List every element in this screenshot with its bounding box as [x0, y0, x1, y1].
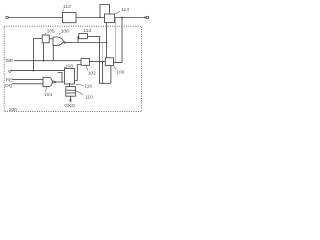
svg-text:116: 116: [84, 83, 92, 89]
wire vertical 114 to 106 left: [106, 23, 108, 58]
wire gate 106 output: [63, 42, 106, 44]
wire line2: [11, 70, 65, 72]
wire 110 to GND: [70, 96, 72, 100]
arrow GND: [69, 100, 72, 103]
wire L into gate output: [58, 73, 63, 83]
gate 104: [43, 77, 52, 86]
svg-text:DQ: DQ: [5, 83, 12, 89]
gate 106: [53, 37, 63, 45]
dashed enclosure 100: [4, 26, 141, 111]
svg-text:110: 110: [85, 94, 93, 100]
box 110: [66, 87, 76, 97]
wire 108 to 110: [69, 84, 71, 87]
svg-text:GND: GND: [64, 103, 75, 109]
svg-text:104: 104: [44, 92, 52, 98]
wire gate 106 bottom stub: [52, 45, 54, 61]
wire 102 bottom to 108: [75, 65, 82, 81]
svg-text:Φ: Φ: [8, 69, 12, 75]
box 105: [42, 35, 49, 43]
wire line1 WE: [14, 60, 81, 62]
arrow gate 106 output: [64, 41, 67, 44]
node junction at vertical: [106, 42, 108, 44]
svg-text:106: 106: [61, 29, 69, 35]
svg-text:100: 100: [9, 107, 17, 113]
leader 116: [76, 84, 84, 85]
svg-text:113: 113: [83, 28, 91, 34]
leader 110: [76, 91, 84, 95]
svg-text:105: 105: [47, 29, 55, 35]
node stub on line1: [43, 60, 45, 62]
wire output up to rail: [114, 18, 123, 63]
svg-text:114: 114: [121, 7, 129, 13]
wire box 113 right link: [87, 37, 111, 84]
svg-text:WE: WE: [6, 58, 14, 64]
svg-text:102: 102: [88, 71, 96, 77]
bubble gate 104: [52, 81, 54, 83]
wire 106 left leg upper faint: [102, 43, 104, 62]
wire gate 104 output: [54, 81, 64, 83]
svg-text:106: 106: [116, 69, 124, 75]
node line2 tap: [33, 70, 35, 72]
box 113: [79, 34, 88, 39]
wire stub up to box 113: [77, 37, 80, 43]
wire 105 to gate 106: [49, 38, 53, 40]
node 108 bottom: [69, 83, 71, 85]
cell line 1: [66, 89, 75, 91]
wire 105 bottom stub: [43, 43, 45, 61]
box 114: [105, 14, 115, 23]
arrow gate 104 output: [55, 81, 58, 84]
cell line 2: [66, 92, 75, 94]
wire bypass over 114: [100, 5, 110, 18]
wire line4: [12, 83, 43, 85]
box 106 output: [105, 58, 113, 66]
node rail-bypass junction: [99, 17, 101, 19]
wire top rail: [8, 17, 144, 19]
svg-text:112: 112: [63, 4, 71, 10]
box 102: [81, 59, 90, 66]
svg-text:RE: RE: [6, 77, 13, 83]
wire 106 bottom leg: [110, 66, 112, 84]
node rail junction: [121, 17, 123, 19]
wire line3: [12, 79, 43, 81]
svg-text:108: 108: [65, 64, 73, 70]
output terminal: [144, 17, 146, 19]
wire 102 to 106: [90, 61, 106, 63]
wire input to 105: [34, 39, 43, 71]
box 112: [63, 13, 77, 23]
node wire tap: [102, 61, 104, 63]
wire faint rail to output node: [114, 18, 116, 62]
input terminal: [6, 16, 9, 19]
wire 106 left leg lower: [102, 62, 104, 84]
box 108: [65, 69, 75, 85]
